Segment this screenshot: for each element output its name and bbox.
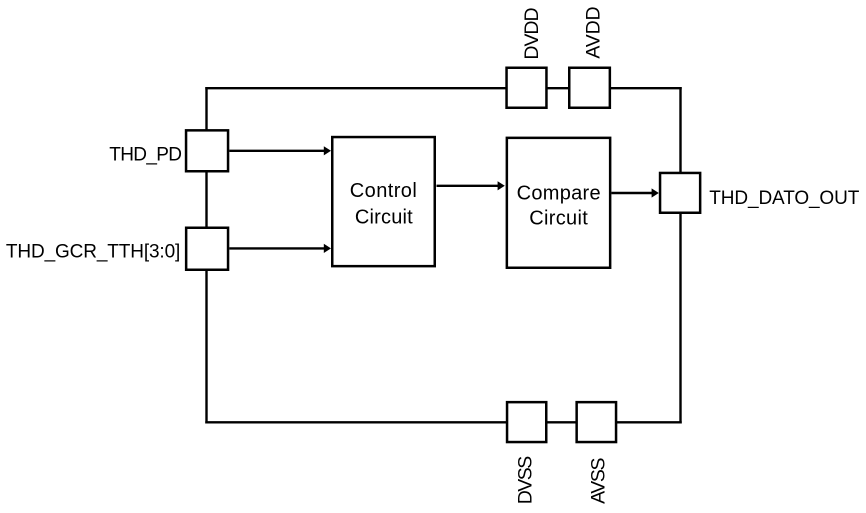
wire: bottom supply rail (DVSS/AVSS rail): [205, 421, 681, 423]
svg-text:AVDD: AVDD: [582, 6, 604, 58]
pin DVSS (bottom pad box): [507, 402, 546, 442]
block U1 Control Circuit: [332, 137, 435, 266]
block U2 Compare Circuit: [507, 138, 610, 268]
pin DVDD (top pad box): [507, 68, 547, 108]
svg-text:DVSS: DVSS: [514, 456, 536, 505]
wire: Control Circuit to Compare Circuit (arrow): [437, 181, 505, 190]
label Compare Circuit: [517, 183, 601, 230]
wire: left vertical bus: [205, 87, 207, 424]
pin THD_PD (left input pad box): [186, 130, 228, 171]
wire: THD_GCR_TTH[3:0] pin to Control Circuit (arrow): [229, 244, 331, 253]
pin THD_GCR_TTH[3:0] (left input pad box): [186, 228, 228, 270]
wire: THD_PD pin to Control Circuit (arrow): [229, 146, 331, 155]
svg-text:Circuit: Circuit: [529, 208, 588, 230]
svg-text:Control: Control: [350, 180, 417, 202]
svg-text:AVSS: AVSS: [587, 458, 609, 504]
svg-text:THD_PD: THD_PD: [109, 144, 182, 165]
svg-text:Compare: Compare: [517, 183, 601, 205]
label Control Circuit: [350, 180, 417, 229]
svg-text:THD_GCR_TTH[3:0]: THD_GCR_TTH[3:0]: [6, 242, 180, 263]
pin AVSS (bottom pad box): [577, 402, 616, 442]
pin THD_DATO_OUT (right output pad box): [660, 173, 700, 213]
svg-text:THD_DATO_OUT: THD_DATO_OUT: [709, 188, 859, 209]
wire: Compare Circuit to THD_DATO_OUT pin (arrow): [611, 188, 658, 197]
wire: top supply rail (DVDD/AVDD rail): [205, 87, 681, 89]
wire: right vertical bus: [679, 87, 681, 424]
svg-text:DVDD: DVDD: [521, 7, 543, 59]
pin AVDD (top pad box): [569, 68, 610, 108]
svg-text:Circuit: Circuit: [355, 207, 413, 229]
